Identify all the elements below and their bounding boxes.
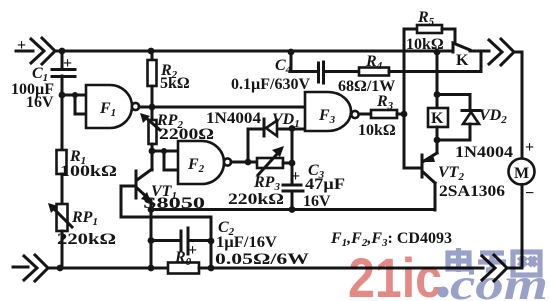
wire C1 branch: [61, 51, 64, 69]
svg-text:220kΩ: 220kΩ: [57, 231, 116, 248]
wire C1 to R1: [61, 76, 64, 150]
node C2 left: [148, 237, 155, 244]
node emitter junction: [148, 206, 155, 213]
input terminal top-left +: [16, 38, 59, 64]
svg-text:16V: 16V: [26, 94, 54, 111]
node R3/R5/base: [401, 111, 408, 118]
svg-text:16V: 16V: [303, 193, 331, 210]
capacitor C2: [151, 239, 211, 242]
svg-text:2SA1306: 2SA1306: [439, 183, 505, 200]
capacitor C3: [283, 185, 303, 191]
node rail-C1: [59, 48, 66, 55]
transistor Q VT1: [135, 171, 138, 198]
svg-text:+: +: [17, 37, 26, 54]
transistor Q VT2: [421, 155, 424, 177]
wire VD2 top branch: [437, 95, 470, 111]
motor M: [509, 159, 535, 185]
svg-text:1N4004: 1N4004: [206, 110, 261, 127]
node VD1-right / F3 lower input: [289, 125, 296, 132]
node C3 bottom: [289, 206, 296, 213]
svg-text:−: −: [525, 185, 534, 202]
wire R1 to RP1: [61, 174, 64, 204]
node RP2/VT1-collector/F2: [149, 148, 156, 155]
wire R2 to F1 out line: [151, 86, 154, 107]
svg-text:0.05Ω/6W: 0.05Ω/6W: [215, 251, 309, 268]
relay coil K: [428, 108, 448, 127]
wire right edge bottom: [521, 185, 524, 269]
resistor R1: [57, 150, 67, 174]
svg-text:+: +: [525, 139, 534, 156]
resistor R5: [404, 28, 417, 31]
diode VD1: [248, 128, 305, 131]
svg-text:M: M: [514, 165, 529, 182]
resistor R3: [359, 113, 371, 116]
svg-text:+: +: [63, 55, 72, 72]
watermark char zi: [478, 253, 506, 270]
output terminal bottom-right: [482, 255, 522, 281]
node F2 input tie: [161, 148, 167, 154]
output terminal top-right: [489, 39, 522, 65]
svg-text:5kΩ: 5kΩ: [160, 75, 190, 92]
svg-text:1N4004: 1N4004: [455, 144, 513, 161]
node C2 right: [208, 238, 215, 245]
relay contact K blade: [453, 43, 470, 52]
wire F1 input feed: [62, 95, 86, 114]
node C1-F1 tap: [59, 92, 66, 99]
wire coil branch from rail: [436, 52, 439, 108]
node rail-snubber: [288, 49, 295, 56]
svg-text:1µF/16V: 1µF/16V: [216, 234, 277, 251]
svg-text:220kΩ: 220kΩ: [228, 191, 284, 208]
wire bottom rail right: [199, 267, 483, 270]
potentiometer RP1: [57, 204, 68, 231]
wire snubber branch C4/R4: [291, 52, 317, 72]
resistor R0: [168, 263, 199, 274]
wire F2 input feed: [152, 151, 178, 170]
wire C2 right to rail: [210, 241, 213, 268]
capacitor C4: [319, 62, 324, 83]
wire right edge top: [521, 52, 524, 158]
node rail-R2: [148, 48, 155, 55]
node rail RP1: [57, 265, 64, 272]
wire R5 left riser / VT2 base feed: [404, 29, 420, 168]
wire R4 to contact output: [389, 52, 481, 72]
wire RP2 to F2 feed: [151, 144, 154, 170]
svg-text:68Ω/1W: 68Ω/1W: [338, 78, 395, 95]
node F2out/VD1: [245, 159, 252, 166]
node coil top / VD2 top: [434, 91, 441, 98]
node rail-relay-coil: [434, 49, 441, 56]
wire node X vertical: [291, 129, 294, 185]
svg-text:0.1µF/630V: 0.1µF/630V: [231, 76, 310, 93]
svg-text:100kΩ: 100kΩ: [60, 163, 117, 180]
node coil bottom / VD2 bottom / VT2 emitter: [434, 137, 441, 144]
op-amp gate F2: [178, 141, 224, 184]
wire top rail: [60, 50, 453, 53]
svg-text:10kΩ: 10kΩ: [406, 36, 444, 53]
wire F1 output to F3 input: [139, 106, 305, 109]
wire RP1 to bottom rail: [61, 231, 64, 268]
input terminal bottom-left: [13, 255, 48, 281]
svg-text:K: K: [456, 52, 469, 69]
wire VT1 emitter to VT2 collector line: [151, 208, 435, 211]
diode VD2: [462, 109, 480, 112]
resistor R4: [359, 68, 389, 76]
watermark char wang: [513, 252, 540, 275]
op-amp gate F3: [305, 92, 351, 131]
wire F2 output: [231, 161, 257, 164]
svg-text:+: +: [291, 168, 300, 185]
node F1 input tie: [72, 92, 78, 98]
node RP3 right: [289, 160, 296, 167]
svg-text:47µF: 47µF: [305, 176, 345, 193]
wire bottom rail left: [48, 267, 168, 270]
watermark char dian: [448, 248, 474, 272]
resistor R2: [151, 51, 154, 60]
node R2/RP2 on F1 out: [149, 104, 156, 111]
wire VT1 base loop via R0 sense: [121, 186, 211, 242]
watermark 21ic: [348, 246, 548, 301]
wire VD1 branch drop: [247, 129, 250, 162]
node rail C2-right branch: [208, 265, 215, 272]
capacitor C1: [52, 70, 75, 77]
svg-text:K: K: [431, 110, 444, 127]
op-amp gate F1: [86, 85, 132, 128]
node rail VT1 emitter: [148, 265, 155, 272]
potentiometer RP3: [257, 158, 283, 168]
potentiometer RP2: [151, 107, 154, 120]
svg-text:10kΩ: 10kΩ: [358, 122, 396, 139]
svg-text:21ic: 21ic: [348, 246, 442, 301]
